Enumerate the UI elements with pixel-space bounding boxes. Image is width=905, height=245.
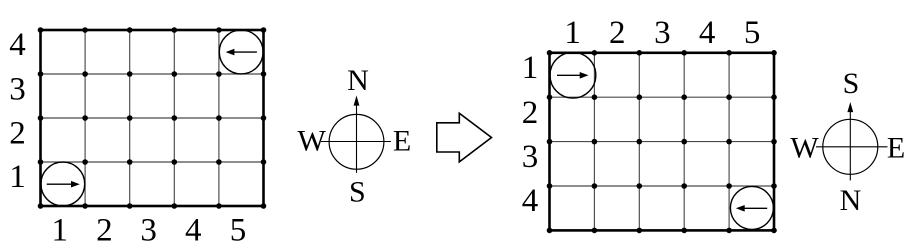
svg-text:4: 4 xyxy=(522,183,539,219)
svg-text:W: W xyxy=(790,132,819,165)
right grid row labels 1 2 3 4 xyxy=(522,50,539,219)
left compass circle xyxy=(329,114,384,169)
right grid border xyxy=(550,53,775,231)
svg-text:W: W xyxy=(298,124,327,157)
svg-text:1: 1 xyxy=(9,159,26,195)
right grid robot at (5,4) facing west xyxy=(730,186,773,229)
right grid node dots xyxy=(547,50,777,233)
svg-text:4: 4 xyxy=(9,27,26,63)
right compass south arrowhead xyxy=(847,102,853,112)
left grid node dots xyxy=(38,27,267,209)
svg-text:4: 4 xyxy=(699,15,716,51)
svg-text:3: 3 xyxy=(9,71,26,107)
svg-text:3: 3 xyxy=(140,212,157,245)
svg-text:2: 2 xyxy=(96,212,113,245)
big transform arrow xyxy=(437,113,492,162)
left grid robot at (1,1) facing east xyxy=(41,162,85,206)
svg-text:N: N xyxy=(347,64,369,97)
left compass cross xyxy=(321,103,391,173)
svg-text:S: S xyxy=(349,176,366,209)
svg-text:1: 1 xyxy=(564,15,581,51)
right grid inner lines xyxy=(550,53,775,231)
left grid robot at (5,4) facing west xyxy=(219,30,263,74)
right grid robot at (1,1) facing east xyxy=(550,52,596,98)
left grid inner lines xyxy=(41,30,264,206)
svg-text:4: 4 xyxy=(185,212,202,245)
svg-text:1: 1 xyxy=(52,212,69,245)
svg-text:E: E xyxy=(887,132,905,165)
svg-text:1: 1 xyxy=(522,50,539,86)
svg-text:S: S xyxy=(843,67,860,100)
svg-text:E: E xyxy=(393,124,411,157)
svg-text:N: N xyxy=(840,184,862,217)
right compass cross xyxy=(816,109,888,180)
left grid column labels 1 2 3 4 5 xyxy=(52,212,247,245)
svg-text:3: 3 xyxy=(522,139,539,175)
left grid border xyxy=(41,30,264,206)
svg-text:5: 5 xyxy=(744,15,761,51)
left grid row labels 4 3 2 1 xyxy=(9,27,26,195)
svg-text:2: 2 xyxy=(609,15,626,51)
svg-text:2: 2 xyxy=(9,116,26,152)
right grid column labels 1 2 3 4 5 xyxy=(564,15,760,51)
svg-text:2: 2 xyxy=(522,95,539,131)
left compass north arrowhead xyxy=(354,96,360,106)
svg-text:5: 5 xyxy=(230,212,247,245)
right compass circle xyxy=(823,119,878,174)
svg-text:3: 3 xyxy=(654,15,671,51)
